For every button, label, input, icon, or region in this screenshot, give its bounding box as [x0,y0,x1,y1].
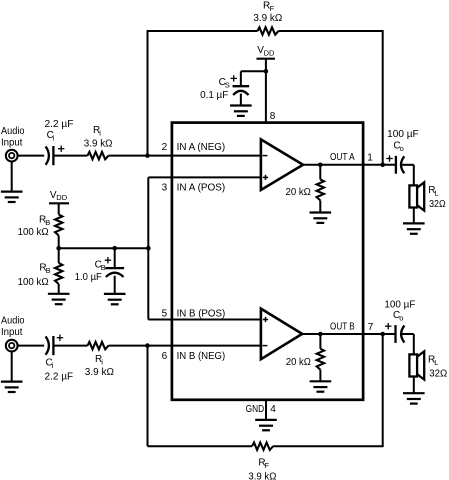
pin 5 label [162,309,168,320]
label Audio Input (A) [1,126,25,148]
capacitor Ci (A) [46,146,54,165]
plus sign CB [105,257,111,263]
svg-text:IN A (NEG): IN A (NEG) [177,142,226,153]
wire: Ri B to op-amp B minus [109,345,261,347]
label RF (bottom) [258,458,269,470]
resistor RB2 zigzag [55,263,62,284]
svg-text:100 kΩ: 100 kΩ [18,227,49,238]
svg-text:Input: Input [1,138,23,149]
svg-text:B: B [101,263,106,272]
svg-text:Audio: Audio [1,316,25,327]
label 3.9 kOhm (bottom) [248,472,277,480]
wire: feedback B right vertical [382,334,384,447]
svg-text:2: 2 [162,142,168,153]
svg-text:Input: Input [1,327,23,338]
wire: bias bus [59,247,149,249]
svg-text:7: 7 [368,322,374,333]
svg-text:20 kΩ: 20 kΩ [286,187,312,198]
label Ci (A) [47,130,55,143]
wire: pin3 to pin5 vertical [147,177,149,319]
label VDD (bias) [50,190,68,202]
op-amp A plus sign [263,175,268,180]
svg-text:1: 1 [367,152,373,163]
svg-text:3.9 kΩ: 3.9 kΩ [248,472,277,480]
wire: jack B to ground [11,352,13,382]
wire: jack A to ground [11,162,13,192]
IC package box [172,123,363,400]
ground: input jack B [1,382,23,392]
node: RB junction [56,246,61,251]
label 20 kOhm (A) [286,187,312,198]
wire: CS to ground [240,94,242,106]
node: 20k A junction [318,163,323,168]
ground: speaker B [403,393,425,403]
svg-text:L: L [434,358,438,367]
svg-text:B: B [46,266,51,275]
resistor RF (channel A feedback) zigzag [258,27,279,34]
svg-text:3.9 kΩ: 3.9 kΩ [84,138,113,149]
label 100 uF (Co B) [384,299,415,310]
label 100 kOhm (RB1) [18,227,49,238]
svg-text:6: 6 [162,351,168,362]
capacitor Ci (B) [46,336,54,355]
svg-text:32Ω: 32Ω [429,199,446,210]
node: CB junction [112,246,117,251]
label Co (A) [393,140,403,153]
svg-text:5: 5 [162,309,168,320]
svg-text:8: 8 [270,111,276,122]
wire: VDD bias to RB1 [58,203,60,214]
resistor RB1 zigzag [55,215,62,236]
label CS [219,77,230,90]
op-amp B triangle [261,309,302,360]
input jack B [6,340,18,352]
label GND [246,404,265,415]
label RB2 [39,262,50,275]
wire: Ri A to op-amp A minus [109,155,261,157]
ground: RB2 [48,294,70,304]
pin 3 label [162,183,168,194]
svg-text:100 µF: 100 µF [384,299,415,310]
input jack A [6,150,18,162]
pin 2 label [162,142,168,153]
plus sign CS [231,75,237,81]
label 32 Ohm (B) [429,368,447,379]
label OUT B [330,322,355,333]
svg-text:20 kΩ: 20 kΩ [286,357,311,368]
node: output B feedback junction [380,332,385,337]
wire: bottom feedback horizontal left [148,445,253,447]
resistor 20k (B) zigzag [317,349,324,370]
plus sign Co A [386,155,392,161]
wire: bottom feedback horizontal right [273,445,383,447]
capacitor CB [105,268,124,277]
wire: op-amp A output [303,164,396,166]
wire: RB1 to bus [58,236,60,249]
label OUT A [330,152,355,163]
wire: feedback B left vertical [147,346,149,447]
svg-text:2.2 µF: 2.2 µF [45,371,74,382]
wire: speaker A to ground [413,208,415,224]
wire: top feedback horizontal (RF A to IN A) [148,30,258,32]
label 32 Ohm (A) [429,199,446,210]
svg-text:100 µF: 100 µF [387,129,419,140]
op-amp A minus sign [263,155,268,157]
pin 7 label [368,322,374,333]
label 3.9 kOhm (Ri B) [85,367,115,378]
label RL (A) [428,185,438,198]
resistor RF (channel B feedback) zigzag [252,443,273,450]
svg-text:4: 4 [270,404,276,415]
label Co (B) [393,310,403,323]
svg-text:GND: GND [246,404,265,415]
wire: pin 4 GND [265,400,267,420]
capacitor Co (A) [396,156,404,174]
label RL (B) [428,354,438,367]
svg-text:3.9 kΩ: 3.9 kΩ [253,13,282,24]
label 100 uF (Co A) [387,129,419,140]
node: feedback A / input junction [145,153,150,158]
wire: top feedback horizontal right of RF [279,30,383,32]
label IN B (POS) [177,309,226,320]
label 3.9 kOhm (Ri A) [84,138,113,149]
wire: junction to 20k A [319,165,321,180]
VDD supply symbol (bias) [49,202,69,204]
svg-text:B: B [45,218,50,227]
wire: op-amp B output [302,333,395,335]
label Ci (B) [46,357,54,370]
label RB1 [39,214,50,227]
wire: bus to RB2 [58,248,60,263]
label 100 kOhm (RB2) [18,277,49,288]
svg-text:100 kΩ: 100 kΩ [18,277,49,288]
wire: jack A to Ci [18,155,45,157]
ground: 20k A [310,213,332,223]
pin 1 label [367,152,373,163]
ground: speaker A [403,223,425,233]
pin 4 label [270,404,276,415]
op-amp B minus sign [263,345,268,347]
label IN B (NEG) [177,351,226,362]
ground: CS [230,106,252,116]
ground: pin 4 [255,420,277,430]
wire: pin 3 (IN A POS) [148,176,261,178]
wire: RB2 to ground [58,284,60,294]
wire: jack B to Ci B [18,345,45,347]
svg-text:F: F [270,4,275,13]
svg-text:0.1 µF: 0.1 µF [200,90,228,101]
svg-text:IN A (POS): IN A (POS) [177,183,226,194]
wire: feedback A left vertical [147,30,149,156]
svg-text:Audio: Audio [1,126,25,137]
svg-text:o: o [399,314,403,323]
label 0.1 uF [200,90,228,101]
label CB [95,259,106,272]
plus sign Ci A [58,146,64,152]
label IN A (NEG) [177,142,226,153]
wire: VDD to pin 8 [265,59,267,123]
label VDD (top) [257,45,275,57]
wire: pin 5 (IN B POS) [148,319,261,321]
svg-text:IN B (NEG): IN B (NEG) [177,351,226,362]
resistor Ri (B) zigzag [88,342,109,349]
svg-text:S: S [225,80,230,89]
svg-text:3.9 kΩ: 3.9 kΩ [85,367,115,378]
label 3.9 kOhm (top) [253,13,282,24]
wire: 20k B to ground [319,370,321,382]
ground: 20k B [310,381,332,391]
svg-text:1.0 µF: 1.0 µF [75,272,102,283]
svg-text:IN B (POS): IN B (POS) [177,309,226,320]
wire: 20k A to ground [319,200,321,212]
label 20 kOhm (B) [286,357,311,368]
capacitor Co (B) [396,325,405,343]
resistor Ri (A) zigzag [88,152,109,159]
wire: Co A to speaker [402,165,414,186]
svg-text:OUT A: OUT A [330,152,355,163]
node: 20k B junction [318,332,323,337]
svg-text:32Ω: 32Ω [429,368,447,379]
svg-text:DD: DD [264,49,275,58]
label RF (top) [263,1,275,14]
plus sign Co B [385,323,391,329]
wire: Co B to speaker B [402,334,414,354]
VDD supply symbol (top) [257,58,275,60]
svg-text:2.2 µF: 2.2 µF [45,119,74,130]
ground: CB [104,294,126,304]
node: bus to pin3/5 wire junction [146,246,151,251]
label Ri (A) [93,125,101,138]
label Audio Input (B) [1,316,25,338]
node: feedback B / input junction [145,343,150,348]
wire: Ci A to Ri A [53,155,87,157]
node: output A feedback junction [380,163,385,168]
svg-text:F: F [265,461,270,470]
svg-text:o: o [400,144,404,153]
wire: bus to CB [114,248,116,268]
wire: Ci B to Ri B [53,345,87,347]
wire: junction to CS cap [241,71,266,86]
ground: input jack A [1,192,23,202]
op-amp A triangle [261,139,303,190]
plus sign Ci B [57,335,63,341]
label IN A (POS) [177,183,226,194]
speaker RL (A) [409,182,424,210]
pin 6 label [162,351,168,362]
pin 8 label [270,111,276,122]
label 1.0 uF [75,272,102,283]
capacitor CS [233,86,250,95]
svg-text:L: L [434,189,438,198]
wire: speaker B to ground [413,377,415,394]
svg-text:OUT B: OUT B [330,322,355,333]
label 2.2 uF (B) [45,371,74,382]
label Ri (B) [95,354,103,367]
node: VDD/CS junction [264,69,269,74]
op-amp B plus sign [263,317,268,322]
wire: junction to 20k B [319,334,321,349]
wire: CB to ground [114,276,116,294]
svg-text:DD: DD [56,193,67,202]
label 2.2 uF (A) [45,119,74,130]
speaker RL (B) [409,351,424,379]
svg-text:3: 3 [162,183,168,194]
wire: feedback A right vertical [382,30,384,165]
resistor 20k (A) zigzag [317,179,324,200]
